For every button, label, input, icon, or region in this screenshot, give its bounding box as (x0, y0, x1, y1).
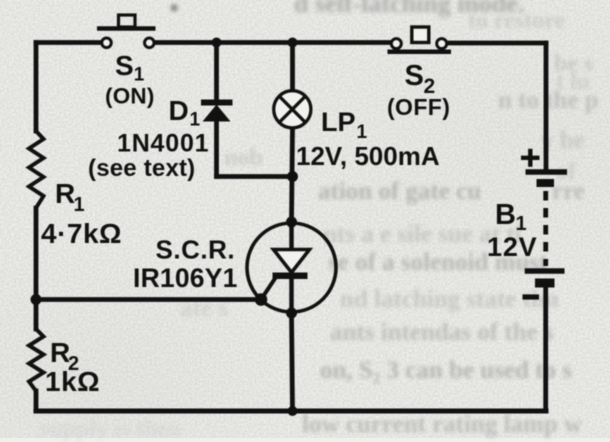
svg-text:12V: 12V (487, 232, 537, 262)
svg-text:S: S (115, 50, 134, 81)
wire left between R1 and node (34, 208, 39, 329)
node cathode-bottom wire (288, 406, 298, 416)
node SCR gate (255, 293, 268, 306)
svg-text:1: 1 (74, 194, 85, 216)
node lamp top on top wire (288, 38, 298, 48)
wire top-right segment (447, 41, 546, 46)
battery minus sign (523, 294, 540, 299)
SCR (thyristor) (247, 222, 336, 313)
wire bottom (36, 409, 546, 414)
battery B1 (525, 172, 567, 288)
wire right lower (543, 287, 548, 411)
svg-text:(see text): (see text) (88, 155, 195, 182)
wire D1 cathode drop (214, 120, 219, 177)
svg-text:S.C.R.: S.C.R. (156, 235, 236, 265)
label R1 (55, 178, 85, 216)
node R1-R2 gate branch (31, 294, 42, 305)
wire left upper (34, 43, 39, 132)
svg-text:1N4001: 1N4001 (117, 130, 209, 158)
svg-text:D: D (169, 95, 189, 126)
wire top-left segment (36, 40, 101, 45)
wire gate horizontal (36, 297, 261, 302)
svg-text:1: 1 (134, 65, 145, 86)
svg-text:S: S (405, 60, 424, 92)
svg-text:(ON): (ON) (105, 84, 155, 109)
svg-text:B: B (495, 199, 516, 231)
wire SCR cathode to bottom (292, 313, 293, 411)
label B1 (495, 199, 527, 235)
svg-text:12V, 500mA: 12V, 500mA (296, 141, 440, 171)
lamp LP1 (274, 91, 311, 128)
switch S1 (97, 15, 156, 48)
label S1 (115, 50, 145, 86)
diode D1 (201, 100, 233, 122)
node D1-lamp junction (287, 171, 298, 182)
wire lamp top (290, 43, 295, 92)
node SCR anode (286, 217, 297, 228)
svg-text:1kΩ: 1kΩ (45, 366, 100, 397)
wire D1 to lamp branch horizontal (217, 174, 293, 179)
svg-text:1: 1 (357, 122, 368, 143)
wire lamp bottom to SCR anode (292, 128, 293, 222)
wire left lower (34, 391, 39, 411)
svg-text:R: R (55, 178, 75, 209)
svg-text:(OFF): (OFF) (387, 94, 450, 120)
battery plus sign (521, 149, 540, 167)
wire D1 anode drop (214, 43, 219, 101)
node D1 anode on top wire (212, 38, 222, 48)
wire right upper (544, 43, 549, 170)
resistor R2 (29, 329, 44, 391)
wire top-middle segment (155, 40, 392, 45)
svg-text:1: 1 (190, 110, 201, 131)
resistor R1 (29, 131, 44, 208)
svg-text:4·7kΩ: 4·7kΩ (41, 218, 122, 249)
label R2 (50, 337, 79, 375)
label D1 (169, 95, 201, 131)
label S2 (405, 60, 436, 98)
svg-text:LP: LP (321, 107, 356, 137)
switch S2 (388, 27, 452, 52)
label LP1 (321, 107, 368, 143)
node SCR cathode (286, 308, 297, 319)
svg-text:IR106Y1: IR106Y1 (133, 263, 238, 293)
